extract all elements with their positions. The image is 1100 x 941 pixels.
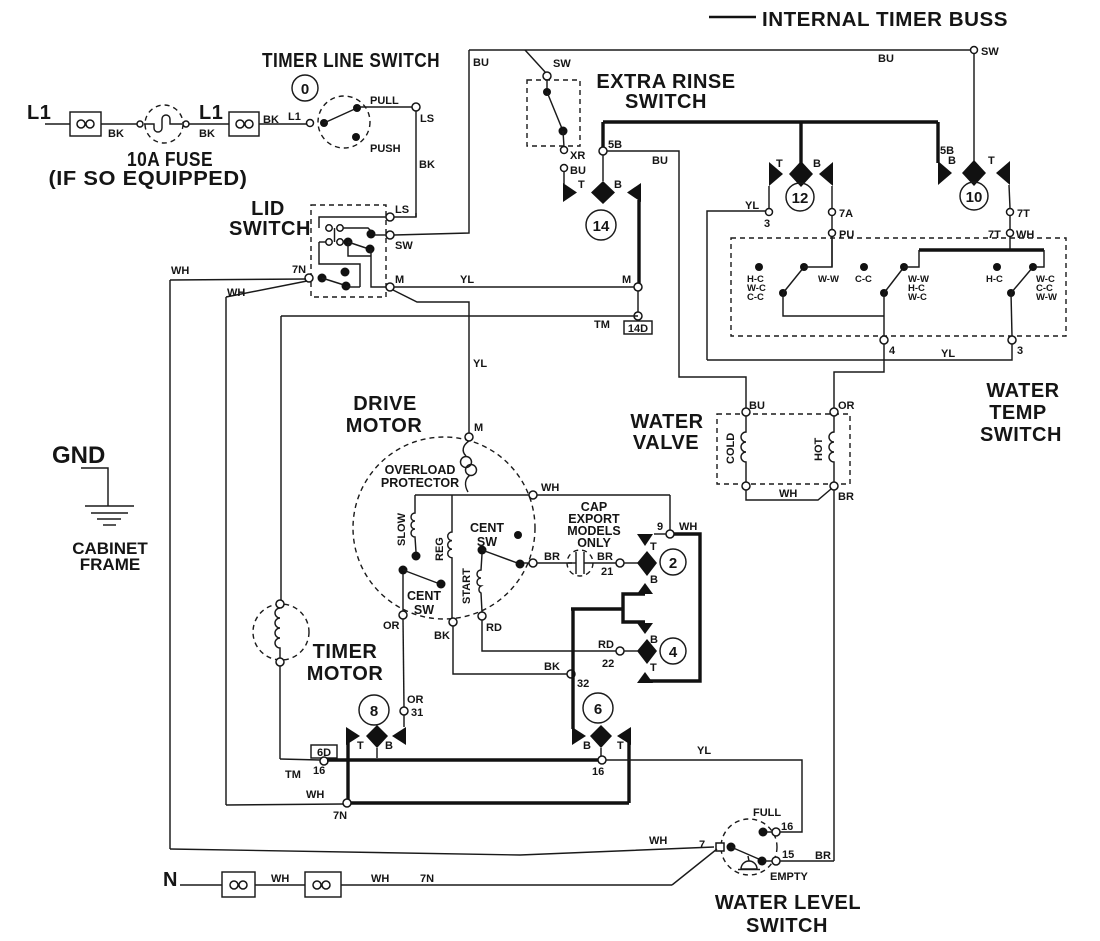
svg-text:BR: BR xyxy=(544,551,560,563)
svg-text:WH: WH xyxy=(227,287,245,299)
svg-text:5B: 5B xyxy=(608,139,622,151)
svg-text:7: 7 xyxy=(699,839,705,851)
svg-text:PULL: PULL xyxy=(370,95,399,107)
svg-text:SLOW: SLOW xyxy=(396,512,408,546)
svg-text:OVERLOAD: OVERLOAD xyxy=(385,463,456,477)
svg-text:T: T xyxy=(776,158,783,170)
svg-text:EXTRA RINSE: EXTRA RINSE xyxy=(596,71,735,93)
svg-text:15: 15 xyxy=(782,849,794,861)
svg-text:INTERNAL TIMER BUSS: INTERNAL TIMER BUSS xyxy=(762,9,1008,31)
svg-text:CENT: CENT xyxy=(470,521,504,535)
svg-text:7T: 7T xyxy=(988,229,1001,241)
svg-text:WATER: WATER xyxy=(986,380,1059,402)
svg-text:B: B xyxy=(650,574,658,586)
svg-text:B: B xyxy=(948,155,956,167)
svg-text:SW: SW xyxy=(553,58,571,70)
svg-text:M: M xyxy=(474,422,483,434)
svg-text:N: N xyxy=(163,869,178,891)
svg-text:FULL: FULL xyxy=(753,807,781,819)
svg-text:0: 0 xyxy=(301,81,309,98)
svg-text:PUSH: PUSH xyxy=(370,143,401,155)
svg-text:W-W: W-W xyxy=(1036,292,1057,303)
svg-text:TM: TM xyxy=(285,769,301,781)
svg-text:BK: BK xyxy=(419,159,435,171)
svg-text:3: 3 xyxy=(764,218,770,230)
svg-text:M: M xyxy=(395,274,404,286)
svg-text:BR: BR xyxy=(597,551,613,563)
svg-text:SW: SW xyxy=(395,240,413,252)
svg-text:BR: BR xyxy=(838,491,854,503)
svg-text:RD: RD xyxy=(598,639,614,651)
svg-text:SWITCH: SWITCH xyxy=(746,915,828,937)
svg-text:WH: WH xyxy=(271,873,289,885)
svg-text:7T: 7T xyxy=(1017,208,1030,220)
svg-text:LID: LID xyxy=(251,198,285,220)
svg-text:LS: LS xyxy=(395,204,409,216)
svg-text:4: 4 xyxy=(889,345,896,357)
svg-text:BU: BU xyxy=(652,155,668,167)
svg-text:WH: WH xyxy=(171,265,189,277)
svg-text:L1: L1 xyxy=(288,111,301,123)
svg-text:YL: YL xyxy=(745,200,759,212)
svg-text:COLD: COLD xyxy=(725,433,737,464)
svg-text:7N: 7N xyxy=(420,873,434,885)
svg-text:C-C: C-C xyxy=(855,274,872,285)
svg-text:M: M xyxy=(622,274,631,286)
svg-text:3: 3 xyxy=(1017,345,1023,357)
svg-text:T: T xyxy=(578,179,585,191)
svg-text:START: START xyxy=(461,568,473,604)
svg-text:MOTOR: MOTOR xyxy=(307,663,384,685)
svg-text:GND: GND xyxy=(52,442,105,469)
svg-text:21: 21 xyxy=(601,566,613,578)
svg-text:9: 9 xyxy=(657,521,663,533)
svg-text:12: 12 xyxy=(792,190,809,207)
svg-text:SWITCH: SWITCH xyxy=(229,218,311,240)
svg-text:YL: YL xyxy=(697,745,711,757)
svg-text:T: T xyxy=(617,740,624,752)
svg-text:T: T xyxy=(357,740,364,752)
svg-text:32: 32 xyxy=(577,678,589,690)
svg-text:BK: BK xyxy=(199,128,215,140)
svg-text:SWITCH: SWITCH xyxy=(980,424,1062,446)
svg-text:WATER LEVEL: WATER LEVEL xyxy=(715,892,861,914)
svg-text:16: 16 xyxy=(781,821,793,833)
svg-text:7A: 7A xyxy=(839,208,853,220)
svg-text:WATER: WATER xyxy=(630,411,703,433)
svg-text:YL: YL xyxy=(473,358,487,370)
svg-text:C-C: C-C xyxy=(747,292,764,303)
svg-text:BU: BU xyxy=(473,57,489,69)
svg-text:7N: 7N xyxy=(292,264,306,276)
svg-text:BK: BK xyxy=(108,128,124,140)
svg-text:TEMP: TEMP xyxy=(989,402,1047,424)
svg-text:ONLY: ONLY xyxy=(577,536,611,550)
svg-text:T: T xyxy=(650,662,657,674)
svg-text:BU: BU xyxy=(570,165,586,177)
svg-text:SW: SW xyxy=(414,603,434,617)
svg-text:H-C: H-C xyxy=(986,274,1003,285)
svg-text:8: 8 xyxy=(370,703,378,720)
svg-text:B: B xyxy=(385,740,393,752)
svg-text:31: 31 xyxy=(411,707,423,719)
svg-text:REG: REG xyxy=(434,537,446,561)
svg-text:OR: OR xyxy=(383,620,400,632)
svg-text:XR: XR xyxy=(570,150,585,162)
svg-text:YL: YL xyxy=(460,274,474,286)
svg-text:22: 22 xyxy=(602,658,614,670)
svg-text:T: T xyxy=(988,155,995,167)
svg-text:PU: PU xyxy=(839,229,854,241)
svg-text:SW: SW xyxy=(981,46,999,58)
svg-text:BU: BU xyxy=(878,53,894,65)
svg-text:DRIVE: DRIVE xyxy=(353,393,417,415)
svg-text:PROTECTOR: PROTECTOR xyxy=(381,476,459,490)
svg-text:TIMER LINE SWITCH: TIMER LINE SWITCH xyxy=(262,50,440,72)
svg-text:14D: 14D xyxy=(628,323,648,335)
svg-text:OR: OR xyxy=(838,400,855,412)
svg-text:WH: WH xyxy=(306,789,324,801)
svg-text:TIMER: TIMER xyxy=(313,641,378,663)
svg-text:LS: LS xyxy=(420,113,434,125)
svg-text:2: 2 xyxy=(669,555,677,572)
svg-text:HOT: HOT xyxy=(813,438,825,462)
svg-text:W-C: W-C xyxy=(908,292,927,303)
svg-text:VALVE: VALVE xyxy=(633,432,699,454)
svg-text:WH: WH xyxy=(1016,229,1034,241)
svg-text:WH: WH xyxy=(541,482,559,494)
svg-text:BK: BK xyxy=(544,661,560,673)
svg-text:FRAME: FRAME xyxy=(80,555,140,574)
svg-text:B: B xyxy=(583,740,591,752)
svg-text:10: 10 xyxy=(966,189,983,206)
svg-text:B: B xyxy=(813,158,821,170)
svg-text:CENT: CENT xyxy=(407,589,441,603)
svg-text:7N: 7N xyxy=(333,810,347,822)
svg-text:T: T xyxy=(650,541,657,553)
svg-text:B: B xyxy=(614,179,622,191)
svg-text:WH: WH xyxy=(779,488,797,500)
svg-text:BK: BK xyxy=(434,630,450,642)
svg-text:WH: WH xyxy=(371,873,389,885)
svg-text:MOTOR: MOTOR xyxy=(346,415,423,437)
svg-text:W-W: W-W xyxy=(818,274,839,285)
svg-text:RD: RD xyxy=(486,622,502,634)
svg-text:6: 6 xyxy=(594,701,602,718)
svg-text:L1: L1 xyxy=(199,102,223,124)
svg-text:EMPTY: EMPTY xyxy=(770,871,809,883)
svg-text:BR: BR xyxy=(815,850,831,862)
svg-text:16: 16 xyxy=(592,766,604,778)
svg-text:4: 4 xyxy=(669,644,678,661)
svg-text:16: 16 xyxy=(313,765,325,777)
svg-text:BU: BU xyxy=(749,400,765,412)
svg-text:(IF SO EQUIPPED): (IF SO EQUIPPED) xyxy=(49,168,248,190)
svg-text:TM: TM xyxy=(594,319,610,331)
svg-text:L1: L1 xyxy=(27,102,51,124)
svg-text:OR: OR xyxy=(407,694,424,706)
svg-text:YL: YL xyxy=(941,348,955,360)
svg-text:SWITCH: SWITCH xyxy=(625,91,707,113)
svg-text:14: 14 xyxy=(593,218,610,235)
svg-text:WH: WH xyxy=(649,835,667,847)
svg-text:WH: WH xyxy=(679,521,697,533)
